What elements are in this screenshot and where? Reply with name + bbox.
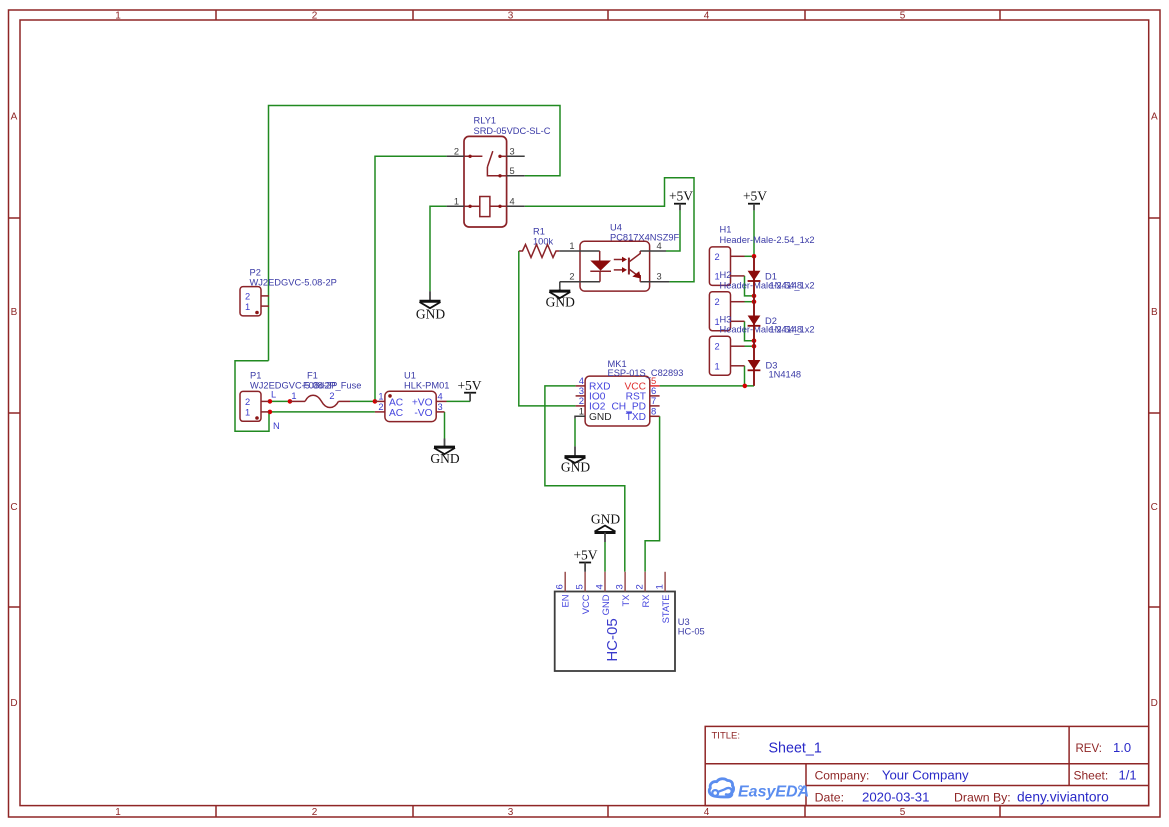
svg-text:U4: U4 [610, 222, 622, 232]
svg-text:1N4148: 1N4148 [770, 325, 803, 335]
power module U1 HLK-PM01 [375, 370, 450, 421]
svg-text:1/1: 1/1 [1119, 768, 1137, 783]
ruler tick right A/B [1149, 217, 1160, 219]
header H1 Header-Male-2.54_1x2 [709, 225, 814, 286]
svg-text:Your Company: Your Company [882, 767, 969, 782]
svg-text:1: 1 [245, 302, 250, 312]
ruler letters left [10, 112, 17, 710]
wire top loop P2 to relay pin5 [269, 106, 561, 361]
svg-text:STATE: STATE [660, 595, 671, 624]
ground GND ESP pin1 [561, 446, 590, 474]
ground GND U1 -VO [430, 439, 459, 466]
svg-text:D: D [1151, 698, 1158, 709]
svg-text:1: 1 [569, 241, 574, 251]
wire L segment fuse to U1 [350, 400, 375, 402]
ruler numbers top [115, 11, 906, 22]
svg-text:F1: F1 [307, 370, 318, 380]
junction D2 cathode / H2 pin1 [752, 338, 757, 343]
svg-text:PC817X4NSZ9F: PC817X4NSZ9F [610, 232, 680, 242]
svg-text:1N4148: 1N4148 [770, 280, 803, 290]
junction H3 pin1 on VCC wire [743, 384, 748, 389]
ruler tick left B/C [9, 412, 21, 414]
ruler tick left A/B [9, 217, 21, 219]
wire H3 pin1 to VCC wire [744, 366, 746, 386]
junction L at U1 pin1 / relay branch [373, 399, 378, 404]
svg-text:deny.viviantoro: deny.viviantoro [1017, 789, 1109, 804]
svg-text:SRD-05VDC-SL-C: SRD-05VDC-SL-C [474, 126, 551, 136]
svg-text:2: 2 [579, 396, 584, 407]
svg-text:3: 3 [657, 272, 662, 282]
ruler tick top 3 [607, 10, 609, 20]
header H2 Header-Male-2.54_1x2 [709, 270, 814, 331]
svg-text:2: 2 [569, 272, 574, 282]
diode D3 1N4148 [748, 360, 801, 379]
svg-text:B: B [11, 307, 18, 318]
ground GND U4 pin2 [546, 288, 575, 309]
junction +5V / H1 pin2 / D1 anode [752, 254, 757, 259]
svg-text:5: 5 [900, 807, 906, 818]
svg-text:ESP-01S_C82893: ESP-01S_C82893 [608, 368, 684, 378]
junction L at fuse pin1 [288, 399, 293, 404]
ruler tick left C/D [9, 606, 21, 608]
wire H1 pin2 link [745, 255, 755, 257]
svg-text:R1: R1 [533, 226, 545, 236]
power flag +5V U4 pin4 [669, 189, 693, 211]
svg-text:C: C [1151, 502, 1158, 513]
diode D1 1N4148 [748, 271, 802, 291]
svg-text:HC-05: HC-05 [604, 618, 621, 661]
wire ESP TXD to HC-05 RX [645, 416, 660, 572]
header H3 Header-Male-2.54_1x2 [709, 315, 814, 376]
svg-text:8: 8 [651, 406, 656, 417]
wire H2 pin2 link [745, 301, 755, 303]
wire relay pin1 to GND [430, 206, 447, 291]
svg-text:H2: H2 [720, 270, 732, 280]
svg-text:P2: P2 [250, 268, 261, 278]
svg-text:1: 1 [245, 407, 250, 417]
ruler tick bottom 5 [999, 806, 1001, 817]
svg-text:1: 1 [291, 391, 296, 401]
ruler tick top 1 [215, 10, 217, 20]
svg-text:4: 4 [595, 584, 606, 589]
svg-text:1: 1 [715, 361, 720, 371]
svg-text:C: C [10, 502, 17, 513]
svg-text:VCC: VCC [580, 594, 591, 614]
svg-text:2: 2 [454, 146, 459, 156]
diode D2 1N4148 [748, 316, 802, 335]
svg-text:L: L [271, 390, 276, 400]
ground GND relay pin1 [416, 291, 445, 321]
svg-text:F08d2P_Fuse: F08d2P_Fuse [303, 381, 361, 391]
junction D1 cathode / H1 pin1 [752, 294, 757, 299]
svg-text:1.0: 1.0 [1113, 740, 1131, 755]
svg-text:GND: GND [416, 307, 445, 322]
connector P1 WJ2EDGVC-5.08-2P [240, 370, 337, 421]
svg-text:Sheet:: Sheet: [1074, 769, 1109, 783]
power flag +5V U1 +VO [457, 378, 481, 401]
svg-text:EasyEDA: EasyEDA [738, 784, 809, 801]
svg-text:2: 2 [715, 297, 720, 307]
svg-text:5: 5 [510, 166, 515, 176]
svg-text:U1: U1 [404, 370, 416, 380]
svg-text:2: 2 [715, 342, 720, 352]
junction N at P1 pin1 [268, 410, 273, 415]
svg-text:Drawn By:: Drawn By: [954, 790, 1011, 804]
ESP pin 1 GND black stub [575, 416, 585, 418]
svg-text:EN: EN [560, 595, 571, 608]
svg-text:IO2: IO2 [589, 402, 606, 413]
svg-text:+5V: +5V [457, 378, 481, 393]
EasyEDA logo [709, 779, 802, 797]
wire relay pin4 to U4 pin3 [525, 178, 694, 282]
svg-text:1: 1 [115, 807, 121, 818]
svg-text:3: 3 [438, 402, 443, 412]
svg-text:+5V: +5V [669, 189, 693, 204]
ruler tick top 5 [999, 10, 1001, 20]
svg-text:GND: GND [600, 594, 611, 615]
svg-text:1: 1 [115, 11, 121, 22]
wire ESP RXD to HC-05 TX [545, 386, 625, 572]
svg-text:+5V: +5V [743, 189, 767, 204]
svg-text:5: 5 [900, 11, 906, 22]
optocoupler U4 PC817X4NSZ9F [559, 222, 679, 291]
svg-text:WJ2EDGVC-5.08-2P: WJ2EDGVC-5.08-2P [250, 277, 337, 287]
svg-text:5: 5 [575, 584, 586, 589]
wire ESP GND pin down [574, 419, 576, 447]
svg-text:2: 2 [312, 807, 318, 818]
svg-text:GND: GND [561, 460, 590, 475]
title block table [705, 726, 1148, 805]
wire U1 +VO to +5V [447, 400, 471, 402]
svg-text:Company:: Company: [815, 768, 870, 782]
svg-text:REV:: REV: [1076, 743, 1102, 755]
svg-text:N: N [273, 421, 280, 431]
svg-text:4: 4 [704, 807, 710, 818]
ruler tick bottom 3 [607, 806, 609, 817]
svg-text:+5V: +5V [573, 548, 597, 563]
svg-text:P1: P1 [250, 370, 261, 380]
svg-text:RX: RX [640, 594, 651, 608]
ruler tick bottom 1 [215, 806, 217, 817]
junction H2 pin2 / D2 anode [752, 299, 757, 304]
power flag +5V HC-05 VCC [573, 548, 597, 572]
resistor R1 100k [519, 226, 560, 257]
wire +5V to U4 pin4 [666, 210, 680, 251]
svg-text:A: A [1151, 112, 1158, 123]
wire H3 pin2 link [745, 345, 755, 347]
svg-text:RLY1: RLY1 [474, 116, 497, 126]
svg-text:TX: TX [620, 594, 631, 607]
svg-text:Sheet_1: Sheet_1 [769, 740, 822, 756]
svg-text:TITLE:: TITLE: [712, 731, 741, 742]
svg-text:GND: GND [430, 451, 459, 466]
wire relay pin2 to L junction [375, 156, 447, 401]
svg-text:3: 3 [508, 807, 514, 818]
svg-text:2: 2 [245, 397, 250, 407]
svg-text:1: 1 [579, 406, 584, 417]
svg-text:GND: GND [546, 295, 575, 310]
fuse F1 [290, 370, 361, 407]
svg-text:1N4148: 1N4148 [769, 369, 802, 379]
svg-text:TXD: TXD [626, 412, 646, 423]
module MK1 ESP-01S_C82893 [575, 359, 683, 426]
svg-text:U3: U3 [678, 617, 690, 627]
wire U1 -VO to GND [444, 412, 446, 439]
svg-text:2: 2 [715, 252, 720, 262]
svg-text:D: D [10, 698, 17, 709]
svg-text:HLK-PM01: HLK-PM01 [404, 381, 449, 391]
wire ESP VCC to diode chain [660, 385, 754, 387]
wire +5V to H1 pin2 node [753, 210, 755, 256]
svg-text:3: 3 [510, 146, 515, 156]
wire H1 pin1 to node D1-D2 [745, 276, 755, 296]
svg-text:1: 1 [454, 196, 459, 206]
wire N P1 to U1 pin2 [269, 411, 375, 413]
svg-text:4: 4 [438, 391, 443, 401]
ruler tick right B/C [1149, 412, 1160, 414]
svg-text:2: 2 [378, 402, 383, 412]
svg-text:2: 2 [635, 584, 646, 589]
power flag +5V diode chain [743, 189, 767, 211]
svg-text:4: 4 [510, 196, 515, 206]
svg-text:Date:: Date: [815, 790, 844, 804]
svg-text:7: 7 [651, 396, 656, 407]
svg-text:B: B [1151, 307, 1158, 318]
wire R1 to ESP IO2 [519, 251, 576, 406]
svg-text:A: A [11, 112, 18, 123]
svg-text:Header-Male-2.54_1x2: Header-Male-2.54_1x2 [720, 235, 815, 245]
junction L at P1 pin2 [268, 399, 273, 404]
wire H2 pin1 to node D2-D3 [745, 321, 755, 340]
svg-text:AC: AC [389, 397, 403, 408]
ruler numbers bottom [115, 807, 906, 818]
ruler letters right [1151, 112, 1158, 710]
svg-text:3: 3 [508, 11, 514, 22]
svg-text:H1: H1 [720, 225, 732, 235]
svg-text:CH_PD: CH_PD [611, 402, 646, 413]
wire HC-05 GND pin [604, 542, 606, 572]
svg-text:+VO: +VO [412, 397, 433, 408]
diode chain spine [753, 256, 755, 386]
ground GND HC-05 pin4 flipped [591, 512, 620, 543]
ruler tick right C/D [1149, 606, 1160, 608]
svg-text:2: 2 [312, 11, 318, 22]
ruler tick bottom 2 [412, 806, 414, 817]
ruler tick top 2 [412, 10, 414, 20]
svg-text:AC: AC [389, 408, 403, 419]
junction H3 pin2 / D3 anode [752, 344, 757, 349]
svg-text:GND: GND [591, 512, 620, 527]
svg-text:2: 2 [329, 391, 334, 401]
connector P2 WJ2EDGVC-5.08-2P [240, 268, 337, 316]
svg-text:HC-05: HC-05 [678, 627, 705, 637]
svg-text:4: 4 [704, 11, 710, 22]
wire P2/P1 left loop N [235, 361, 269, 432]
svg-text:GND: GND [589, 412, 612, 423]
svg-text:6: 6 [555, 584, 566, 589]
svg-text:H3: H3 [720, 315, 732, 325]
relay RLY1 SRD-05VDC-SL-C [447, 116, 551, 228]
svg-text:1: 1 [655, 584, 666, 589]
svg-text:-VO: -VO [414, 408, 432, 419]
ruler tick bottom 4 [804, 806, 806, 817]
svg-text:3: 3 [615, 584, 626, 589]
ESP TXD overline [627, 412, 633, 414]
ESP pin 5 VCC red stub [650, 385, 660, 387]
ruler tick top 4 [804, 10, 806, 20]
module U3 HC-05 [555, 572, 705, 671]
wire L segment P1 to fuse [269, 400, 290, 402]
svg-text:4: 4 [657, 241, 662, 251]
svg-text:2: 2 [245, 292, 250, 302]
svg-text:1: 1 [378, 391, 383, 401]
svg-text:2020-03-31: 2020-03-31 [862, 789, 929, 804]
